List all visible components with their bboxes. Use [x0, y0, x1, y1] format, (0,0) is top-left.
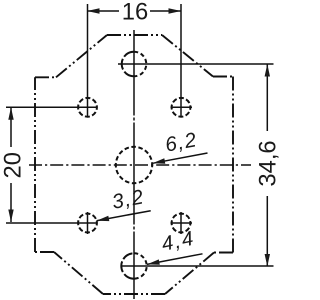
- hole D4.4 top: [134, 52, 146, 77]
- dimension 16 line: [87, 10, 181, 12]
- arrowhead 34,6 down: [265, 254, 270, 267]
- crosshair top hole: [118, 63, 274, 65]
- leader 4,4: [147, 254, 203, 265]
- outline bottom-left stub: [35, 251, 54, 253]
- outline left edge: [34, 77, 36, 252]
- arrowhead leader 4,4: [147, 259, 160, 264]
- arrowhead leader 3,2: [97, 216, 110, 221]
- dimension 34,6 line: [266, 64, 268, 267]
- crosshair lower-left: [6, 222, 97, 224]
- outline top-right stub: [213, 76, 233, 78]
- arrowhead 20 up: [8, 107, 13, 120]
- vertical centerline: [133, 30, 135, 299]
- outline top edge: [107, 34, 162, 36]
- leader 3,2: [97, 211, 151, 221]
- svg-text:6,2: 6,2: [163, 128, 199, 157]
- hole D3.2 lower-right: [172, 214, 191, 233]
- outline bottom-left chamfer: [54, 252, 103, 294]
- crosshair lower-right: [171, 222, 193, 224]
- hole D6.2 center: [116, 147, 152, 183]
- svg-text:16: 16: [122, 0, 148, 26]
- outline bottom-right chamfer: [165, 253, 214, 295]
- arrowhead 34,6 up: [265, 64, 270, 77]
- horizontal centerline (dash-dot): [29, 164, 251, 166]
- crosshair upper-right / extension line: [171, 106, 193, 108]
- hole D3.2 upper-left: [78, 98, 97, 117]
- leader 6,2: [153, 153, 208, 163]
- hole D4.4 bottom: [134, 253, 147, 278]
- arrowhead leader 6,2: [153, 158, 166, 163]
- svg-text:34,6: 34,6: [254, 140, 280, 186]
- svg-text:4,4: 4,4: [160, 227, 197, 256]
- outline top-left chamfer: [56, 35, 107, 77]
- outline top-right chamfer: [162, 35, 213, 77]
- crosshair upper-left / extension lines: [6, 106, 97, 108]
- outline bottom edge: [103, 293, 165, 295]
- outline top-left stub: [35, 76, 56, 78]
- arrowhead 20 down: [8, 210, 13, 223]
- arrowhead 16 left: [87, 8, 100, 13]
- outline right edge: [232, 77, 234, 253]
- crosshair bottom hole: [121, 265, 274, 267]
- dimension 20 line: [10, 107, 12, 222]
- hole D3.2 lower-left: [78, 214, 97, 233]
- svg-text:3,2: 3,2: [110, 185, 146, 214]
- svg-text:20: 20: [0, 152, 27, 178]
- arrowhead 16 right: [169, 8, 182, 13]
- hole D3.2 upper-right: [172, 98, 191, 117]
- component outline (phantom dash-dot plate): [35, 35, 233, 294]
- outline bottom-right stub: [214, 252, 233, 254]
